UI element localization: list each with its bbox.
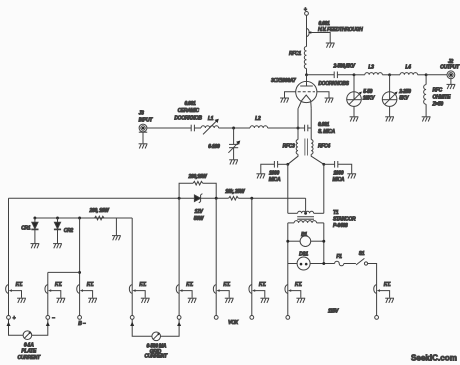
ground J2 [447,84,456,89]
svg-text:CERAMIC: CERAMIC [178,108,200,114]
node link [78,271,81,274]
svg-text:10k, 25W: 10k, 25W [225,189,246,195]
capacitor variable 0-100 [208,128,240,159]
svg-text:H.V. FEEDTHROUGH: H.V. FEEDTHROUGH [318,27,363,33]
wire filament left vertical [297,108,299,139]
svg-text:L3: L3 [368,65,374,71]
node bus at 179 [178,197,181,200]
wire L4 to RFC node [418,74,427,76]
svg-text:F.T.: F.T. [16,282,23,288]
svg-text:+: + [13,316,16,322]
wire w5 vertical [178,198,180,315]
wire RFC1 to plate [306,69,308,82]
wire w7 vertical [251,198,253,315]
wire B+ bus horizontal [9,197,195,199]
transformer T1 STANCOR P-6468 secondary [288,211,324,213]
svg-text:12V: 12V [195,209,204,215]
wire fuse to switch [344,263,356,265]
wire w4 vertical [131,218,133,316]
svg-text:F.T.: F.T. [295,282,302,288]
node mica right [322,163,325,166]
svg-text:B −: B − [78,321,85,327]
svg-text:VOX: VOX [228,320,239,326]
svg-text:0.001: 0.001 [184,101,196,107]
svg-text:T1: T1 [333,210,339,216]
wire primary right rail down [323,223,325,264]
ground 1000 mica right [347,174,356,179]
terminal w1 + [7,316,16,322]
connector J3 INPUT [139,110,154,131]
ground feedthrough [326,43,335,48]
wire right rail to transformer [323,164,325,213]
connector J2 OUTPUT [440,59,460,79]
pilot lamp DS1 [288,251,335,270]
capacitor 2-500 5KV doorknobs [318,63,355,87]
wire cap to node [338,74,354,76]
terminal w8 [286,316,290,320]
wire 10k to center tap [238,197,305,199]
svg-text:200,10W: 200,10W [188,174,208,180]
tube V1 3CX1000A7 [271,75,317,109]
fuse F1 [335,254,344,266]
svg-text:F.T.: F.T. [55,282,62,288]
wire CR bus horizontal [35,217,132,219]
ground J3 [139,144,148,149]
diode CR2 [54,218,74,243]
ground 2-250 cap [385,117,394,122]
terminal w2 - [46,316,55,322]
capacitor 1000 MICA left [261,161,288,183]
node B1 left [286,240,289,243]
wire grid left [285,92,296,98]
ground 0-100 cap [229,160,238,165]
feedthrough FT w9 [374,282,394,303]
inductor L4 [400,65,418,75]
node T1 center tap [304,212,307,215]
wire zener to 10k [201,197,229,199]
svg-text:J3: J3 [139,110,144,116]
ground CR2 [53,244,62,249]
svg-text:F.T.: F.T. [384,282,391,288]
node DS1 right [322,262,325,265]
feedthrough FT w7 [249,282,269,303]
svg-text:F.T.: F.T. [259,282,266,288]
wire cap to L1 [195,127,201,129]
ground 1000 mica left [256,174,265,179]
svg-text:1000: 1000 [333,171,343,177]
svg-text:L2: L2 [255,116,261,122]
svg-text:200, 10W: 200, 10W [88,208,110,214]
wire HV vertical [306,15,308,46]
terminal w5 [177,316,181,320]
inductor RFC OHMITE Z=50 [424,75,451,117]
ground RFC ohmite [422,117,431,122]
node tank1 [353,73,356,76]
capacitor 1000 MICA right [324,161,352,183]
capacitor variable 5-50 10KV [347,75,375,117]
svg-text:MICA: MICA [269,177,281,183]
svg-text:STANCOR: STANCOR [333,217,356,223]
feedthrough FT w3 [77,282,97,303]
inductor L2 [250,116,268,128]
svg-text:0-100: 0-100 [208,144,220,150]
svg-text:5-50: 5-50 [363,89,372,95]
wire RFC4 jog [311,154,324,164]
resistor 200 10W parallel branch [179,174,216,198]
capacitor C feedthrough 0.001 H.V. [307,21,363,42]
node CR bus at 79.6 [78,217,81,220]
wire J3 to cap [147,127,192,129]
ground grid left [280,98,289,103]
terminal w9 [375,316,379,320]
svg-text:115V: 115V [328,309,339,315]
svg-text:RFC: RFC [433,87,443,93]
wire L2 to filament [268,127,305,129]
node mica left [286,163,289,166]
svg-text:0-1A: 0-1A [24,342,34,348]
svg-text:3CX1000A7: 3CX1000A7 [271,78,296,84]
wire L3 to node [382,74,389,76]
svg-text:OUTPUT: OUTPUT [440,64,460,70]
feedthrough FT w8 [285,282,305,303]
wire node to L4 [390,74,400,76]
node plate [305,73,308,76]
terminal w7 [250,316,254,320]
terminal w6 VOX [214,316,238,327]
svg-text:B1: B1 [301,232,307,238]
svg-text:CR2: CR2 [64,228,74,234]
svg-text:PLATE: PLATE [21,349,36,355]
meter M2 grid current loop [130,319,181,359]
node tank2 [388,73,391,76]
wire grid right [317,92,329,98]
svg-text:MICA: MICA [333,177,345,183]
terminal HV+ [304,7,309,16]
ground grid right [325,98,334,103]
wire node to L3 [354,74,365,76]
feedthrough FT w6 [213,282,233,303]
wire plate row left [307,74,335,76]
feedthrough FT w2 [45,282,65,303]
wire node to J2 [426,74,447,76]
svg-text:OHMITE: OHMITE [433,94,452,100]
resistor 200 10W bleeder [88,208,110,220]
diode zener 12V 50W [194,194,205,222]
capacitor 0.001 ceramic doorknob [174,101,202,132]
svg-text:INPUT: INPUT [139,118,154,124]
capacitor 0.001 S.MICA [305,122,336,135]
svg-text:2-500,5KV: 2-500,5KV [333,63,356,69]
svg-text:2-250: 2-250 [398,89,411,95]
wire J3 ground stub [139,131,147,133]
svg-text:1000: 1000 [269,171,279,177]
capacitor variable 2-250 5KV [382,75,411,117]
switch S1 [356,251,368,265]
ground CR1 [31,244,40,249]
wire L1 to L2 [219,127,250,129]
wire RFC3 jog [288,154,298,164]
blower B1 [288,232,324,247]
svg-text:F.T.: F.T. [139,282,146,288]
wire w2 vertical [47,272,49,315]
svg-text:F1: F1 [336,254,342,260]
svg-text:5KV: 5KV [399,95,409,101]
node CR1 [33,217,36,220]
inductor RFC4 [311,140,330,155]
wire w3 B- vertical [79,218,81,316]
svg-text:RFC4: RFC4 [318,143,330,149]
feedthrough FT w1 [6,282,26,303]
resistor 10k 25W [225,189,246,200]
svg-text:L1: L1 [208,116,214,122]
terminal w3 B- [78,316,86,328]
node bus at 251 [250,197,253,200]
wire center tap up [305,198,307,213]
inductor L1 variable [201,116,219,134]
svg-text:10KV: 10KV [363,95,375,101]
ground 5-50 cap [350,117,359,122]
svg-text:F.T.: F.T. [87,282,94,288]
svg-text:CR1: CR1 [21,226,31,232]
node input tank [232,127,235,130]
svg-text:DS1: DS1 [299,251,308,257]
meter M1 plate current loop [7,319,50,361]
core T1 [297,217,314,220]
wire J2 ground stub [450,79,452,84]
wire left rail to transformer [287,164,289,213]
wire filament right vertical [310,108,312,139]
diode CR1 [21,218,38,243]
svg-text:SeekIC.com: SeekIC.com [411,354,457,363]
svg-text:S1: S1 [359,251,365,257]
wire bleeder ground stub [115,218,117,235]
svg-text:0.001: 0.001 [318,122,330,128]
wire w1 vertical [8,198,10,315]
wire primary left rail down [287,223,289,316]
inductor RFC3 [283,140,298,155]
svg-text:+: + [304,7,307,13]
node filament left [297,127,300,130]
core RFC3/RFC4 [305,139,308,156]
svg-text:RFC3: RFC3 [283,143,295,149]
inductor L3 [365,65,383,75]
svg-text:Z=50: Z=50 [432,101,444,107]
svg-text:F.T.: F.T. [186,282,193,288]
wire switch to right rail [368,264,377,316]
svg-text:S. MICA: S. MICA [318,129,335,135]
svg-text:DOORKNOB: DOORKNOB [174,115,202,121]
node RFC [425,73,428,76]
feedthrough FT w5 [176,282,196,303]
transformer T1 primary [288,210,356,229]
feedthrough FT w4 [129,282,149,303]
node B1 right [322,240,325,243]
node bus at 216 [215,197,218,200]
inductor RFC1 [289,47,307,69]
node CR2 [56,217,59,220]
svg-text:CURRENT: CURRENT [18,355,42,361]
svg-text:F.T.: F.T. [223,282,230,288]
wire link horizontal [48,271,80,273]
svg-text:RFC1: RFC1 [289,51,301,57]
svg-text:50W: 50W [194,216,205,222]
wire w6 VOX vertical [215,198,217,315]
svg-text:DOORKNOBS: DOORKNOBS [318,81,349,87]
terminal w4 [130,316,134,320]
svg-text:L4: L4 [405,65,411,71]
ground bleeder [112,236,121,241]
svg-text:P-6468: P-6468 [333,223,348,229]
svg-text:CURRENT: CURRENT [145,354,169,360]
svg-text:−: − [52,316,55,322]
